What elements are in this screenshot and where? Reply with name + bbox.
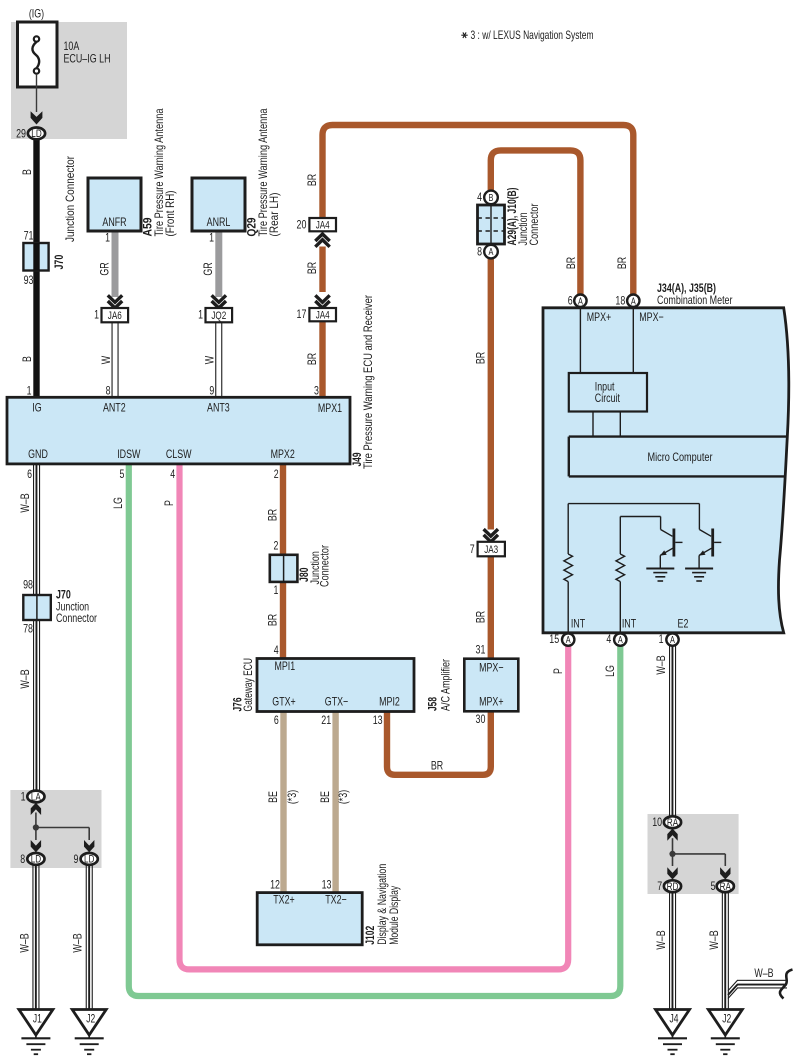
antenna ANFR A59: [88, 178, 141, 231]
svg-text:TX2−: TX2−: [325, 893, 347, 907]
svg-text:J2: J2: [86, 1014, 95, 1026]
wire BR JA4-17 to J49 MPX1: [319, 321, 325, 397]
svg-text:JA6: JA6: [108, 310, 122, 322]
wire BR JA3 to J58 MPX-: [488, 556, 494, 659]
svg-text:ANFR: ANFR: [102, 215, 126, 229]
svg-text:4: 4: [170, 467, 175, 481]
arrow down to LD9: [84, 840, 94, 852]
micro computer box: [569, 437, 787, 477]
wire BR from JA4-20 up over to meter pin18: [323, 125, 634, 295]
svg-text:78: 78: [23, 622, 33, 636]
svg-text:MPX−: MPX−: [639, 310, 663, 324]
svg-text:RD: RD: [667, 881, 679, 893]
internal wire lower rail: [620, 516, 660, 518]
svg-text:LG: LG: [603, 665, 617, 677]
svg-text:B: B: [489, 193, 494, 204]
chevron arrows out of JA4-20: [315, 234, 329, 241]
svg-text:Circuit: Circuit: [595, 391, 621, 405]
svg-text:W: W: [99, 355, 113, 364]
svg-text:93: 93: [24, 273, 34, 287]
svg-text:3 : w/ LEXUS Navigation System: 3 : w/ LEXUS Navigation System: [471, 28, 594, 42]
label J80 Junction Connector: [297, 545, 331, 587]
wire pin6 to input circuit: [579, 308, 581, 373]
svg-text:9: 9: [209, 384, 214, 398]
wire BE J76 GTX- to J102 TX2-: [332, 712, 338, 894]
chevron arrows into JA4-17: [315, 295, 329, 302]
svg-text:A: A: [618, 635, 623, 646]
ground of Q1: [646, 569, 674, 582]
svg-text:W–B: W–B: [707, 930, 721, 949]
svg-text:B: B: [20, 356, 34, 362]
svg-text:MPX−: MPX−: [479, 661, 503, 675]
chevron arrows into JA3: [484, 529, 498, 536]
svg-text:BR: BR: [265, 614, 279, 627]
wire W-B splice RD7 to ground J4: [669, 892, 670, 1009]
svg-text:1: 1: [274, 583, 279, 597]
junction connector A29(A) J10(B): [477, 190, 504, 258]
transistor Q1: [660, 517, 683, 569]
svg-text:BR: BR: [431, 759, 444, 773]
svg-text:6: 6: [27, 467, 32, 481]
pin 1 A terminal (E2): [659, 632, 679, 646]
svg-text:LD: LD: [31, 128, 41, 140]
connector 1 JQ2: [198, 308, 232, 323]
label Q29 / Tire Pressure Warning Antenna (Rear LH): [245, 108, 281, 236]
svg-text:1: 1: [27, 384, 32, 398]
junction connector J70 lower: [23, 578, 51, 636]
wire W-B splice LD8 to ground J1: [32, 865, 33, 1010]
wire W-B splice LD9 to ground J2: [86, 865, 87, 1010]
svg-text:INT: INT: [571, 617, 586, 631]
wire BR junction A29 A-pin down to JA3: [488, 258, 494, 530]
svg-text:2: 2: [274, 539, 279, 553]
transistor Q2: [699, 504, 722, 569]
svg-text:Connector: Connector: [527, 204, 541, 246]
ground splice panel lower-left: [10, 790, 101, 868]
svg-text:10: 10: [652, 815, 662, 829]
svg-text:15: 15: [549, 632, 559, 646]
svg-text:1: 1: [659, 632, 664, 646]
svg-text:ECU–IG LH: ECU–IG LH: [64, 52, 111, 66]
connector terminal 10 RA: [664, 816, 681, 828]
arrow down to LD8: [31, 840, 41, 852]
svg-text:98: 98: [23, 578, 33, 592]
gateway ECU J76: [257, 659, 414, 712]
svg-text:BE: BE: [318, 791, 332, 803]
ground J4: [656, 1010, 690, 1036]
wire continuation squiggle: [780, 970, 793, 999]
svg-text:JA4: JA4: [316, 220, 330, 232]
ground J2 right: [708, 1010, 742, 1036]
arrow down to RD7: [667, 867, 677, 879]
pin 6 A terminal: [568, 293, 587, 307]
svg-text:W–B: W–B: [654, 930, 668, 949]
pin 4 A terminal: [606, 632, 626, 646]
A/C amplifier J58: [464, 659, 518, 712]
svg-text:17: 17: [297, 307, 307, 321]
svg-text:1: 1: [198, 308, 203, 322]
wire BR between JA4 chevrons: [319, 247, 325, 293]
svg-text:IG: IG: [32, 401, 41, 415]
connector 17 JA4: [297, 307, 337, 322]
svg-text:(IG): (IG): [29, 7, 44, 21]
svg-text:BR: BR: [615, 257, 629, 270]
svg-text:JA4: JA4: [316, 310, 330, 322]
connector terminal 9 LD: [81, 853, 98, 865]
svg-text:7: 7: [657, 879, 662, 893]
label A29(A), J10(B) Junction Connector: [505, 188, 541, 246]
svg-text:Junction Connector: Junction Connector: [63, 156, 77, 242]
svg-text:CLSW: CLSW: [166, 447, 192, 461]
note: w/ LEXUS Navigation System: [461, 28, 593, 42]
label J58 A/C Amplifier: [426, 659, 453, 711]
svg-text:BE: BE: [266, 791, 280, 803]
svg-text:W–B: W–B: [754, 966, 773, 980]
svg-text:BR: BR: [305, 174, 319, 187]
svg-text:A/C Amplifier: A/C Amplifier: [439, 659, 453, 711]
arrow down to RA5: [720, 867, 730, 879]
svg-text:Connector: Connector: [318, 545, 332, 587]
svg-text:JQ2: JQ2: [211, 310, 226, 322]
label 10A ECU-IG LH: [64, 39, 111, 66]
ground of Q2: [685, 569, 713, 582]
wire BR J58 MPX+ to J76 MPI2: [387, 711, 491, 775]
connector terminal 7 RD: [664, 880, 681, 892]
svg-text:W–B: W–B: [18, 669, 32, 688]
svg-text:ANRL: ANRL: [207, 215, 231, 229]
wires input circuit to micro computer: [592, 412, 594, 437]
label J102 Display & Navigation Module Display: [363, 864, 401, 945]
ground splice panel lower-right: [648, 814, 739, 894]
svg-text:E2: E2: [678, 617, 689, 631]
svg-text:Connector: Connector: [56, 611, 97, 625]
junction connector J70 upper: [23, 229, 48, 288]
wire GR antenna ANRL to JQ2: [215, 231, 222, 297]
splice wire and junction dot right: [669, 838, 725, 866]
svg-text:A: A: [566, 635, 571, 646]
wire W-B branch to other page: [728, 980, 787, 999]
svg-text:MPX2: MPX2: [271, 447, 295, 461]
svg-text:A: A: [489, 247, 494, 258]
combination meter J34(A) J35(B) body: [543, 308, 789, 633]
arrow up into LA: [31, 803, 41, 815]
svg-text:1: 1: [105, 231, 110, 245]
svg-text:(Rear LH): (Rear LH): [267, 193, 281, 237]
connector 1 JA6: [94, 308, 128, 323]
connector 7 JA3: [470, 542, 505, 557]
wire P (pink) CLSW to meter INT15: [180, 463, 569, 969]
svg-text:1: 1: [94, 308, 99, 322]
svg-text:ANT2: ANT2: [103, 401, 126, 415]
svg-text:B: B: [20, 169, 34, 175]
wire pin18 to input circuit: [632, 308, 634, 373]
svg-text:TX2+: TX2+: [273, 893, 295, 907]
ECU J49 Tire Pressure Warning ECU and Receiver: [7, 397, 350, 464]
wire W JQ2 to J49 ANT3: [215, 322, 216, 397]
junction connector J80: [270, 555, 298, 582]
svg-text:1: 1: [21, 789, 26, 803]
pin 15 A terminal: [549, 632, 574, 646]
svg-text:RA: RA: [720, 881, 732, 893]
connector terminal 5 RA: [717, 880, 734, 892]
svg-text:BR: BR: [564, 257, 578, 270]
svg-text:7: 7: [470, 542, 475, 556]
svg-text:JA3: JA3: [484, 544, 498, 556]
chevron arrows into JA6: [108, 295, 122, 302]
svg-text:13: 13: [322, 878, 332, 892]
label A59 / Tire Pressure Warning Antenna (Front RH): [141, 108, 177, 236]
svg-text:W–B: W–B: [654, 655, 668, 674]
svg-text:P: P: [162, 500, 176, 506]
wire W-B from meter E2 down to splice RA10: [669, 646, 670, 817]
svg-text:BR: BR: [305, 262, 319, 275]
svg-text:LD: LD: [31, 854, 41, 866]
arrow up into RA: [667, 829, 677, 841]
svg-text:6: 6: [568, 293, 573, 307]
svg-text:W: W: [203, 355, 217, 364]
svg-text:GTX+: GTX+: [272, 695, 295, 709]
svg-text:BR: BR: [305, 353, 319, 366]
svg-text:3: 3: [314, 384, 319, 398]
svg-text:ANT3: ANT3: [207, 401, 230, 415]
svg-text:4: 4: [477, 190, 482, 204]
svg-text:9: 9: [74, 852, 79, 866]
svg-text:Gateway ECU: Gateway ECU: [241, 658, 255, 712]
svg-text:(*3): (*3): [336, 790, 350, 804]
svg-text:(*3): (*3): [285, 790, 299, 804]
pin 18 A terminal: [615, 293, 639, 307]
svg-text:LD: LD: [84, 854, 94, 866]
svg-text:LA: LA: [31, 791, 41, 803]
svg-text:W–B: W–B: [71, 933, 85, 952]
wire W-B from J49 GND down to splice LA: [33, 463, 34, 791]
svg-text:Module Display: Module Display: [387, 886, 401, 945]
svg-text:W–B: W–B: [17, 933, 31, 952]
label J70 Junction Connector lower: [56, 588, 97, 626]
ground J2 left: [72, 1010, 106, 1036]
wire BE J76 GTX+ to J102 TX2+: [280, 712, 286, 894]
svg-text:(Front RH): (Front RH): [163, 191, 177, 237]
svg-text:MPI2: MPI2: [379, 695, 400, 709]
wire BR J49 MPX2 through J80 to J76 MPI1: [280, 463, 286, 660]
splice wire and junction dot left: [33, 813, 89, 841]
chevron arrows into JQ2: [212, 295, 226, 302]
svg-text:INT: INT: [622, 617, 637, 631]
svg-text:4: 4: [606, 632, 611, 646]
svg-text:Micro Computer: Micro Computer: [648, 450, 713, 464]
svg-text:MPX+: MPX+: [587, 310, 611, 324]
svg-text:6: 6: [274, 713, 279, 727]
wire W JA6 to J49 ANT2: [112, 322, 113, 397]
svg-text:A: A: [578, 296, 583, 307]
svg-text:2: 2: [274, 467, 279, 481]
svg-text:8: 8: [477, 244, 482, 258]
svg-text:13: 13: [373, 713, 383, 727]
input circuit box: [569, 373, 647, 412]
fuse block background panel: [11, 22, 127, 139]
svg-text:12: 12: [270, 878, 280, 892]
svg-text:4: 4: [274, 643, 279, 657]
svg-text:Tire Pressure Warning ECU and: Tire Pressure Warning ECU and Receiver: [361, 295, 375, 469]
svg-text:MPX+: MPX+: [479, 695, 503, 709]
svg-text:18: 18: [615, 293, 625, 307]
svg-text:A: A: [631, 296, 636, 307]
wire W-B splice RA5 to ground J2 right: [722, 892, 723, 1009]
svg-text:MPX1: MPX1: [318, 401, 342, 415]
wire BR junction A29 B-pin up over to meter pin6: [491, 150, 581, 294]
arrow into connector LD: [31, 111, 43, 124]
svg-text:RA: RA: [667, 817, 679, 829]
resistor R1 (INT 15): [564, 504, 573, 633]
display module J102: [257, 893, 362, 945]
svg-text:IDSW: IDSW: [117, 447, 141, 461]
resistor R2 (INT 4): [616, 517, 625, 634]
connector terminal 29 LD: [28, 127, 45, 139]
svg-text:5: 5: [711, 879, 716, 893]
svg-text:30: 30: [476, 712, 486, 726]
svg-text:BR: BR: [265, 509, 279, 522]
svg-text:GR: GR: [201, 262, 215, 276]
svg-text:GTX−: GTX−: [325, 695, 348, 709]
svg-text:Combination Meter: Combination Meter: [657, 293, 733, 307]
label J76 Gateway ECU: [231, 658, 256, 712]
svg-text:LG: LG: [111, 497, 125, 509]
svg-text:BR: BR: [474, 611, 488, 624]
svg-text:1: 1: [209, 231, 214, 245]
svg-text:J58: J58: [426, 697, 440, 711]
svg-text:8: 8: [20, 852, 25, 866]
ground J1: [19, 1010, 53, 1036]
svg-text:GR: GR: [97, 262, 111, 276]
connector 20 JA4: [297, 217, 337, 231]
antenna ANRL Q29: [192, 178, 245, 231]
svg-text:J4: J4: [670, 1014, 679, 1026]
svg-text:71: 71: [24, 229, 34, 243]
svg-text:J1: J1: [33, 1014, 42, 1026]
svg-text:P: P: [551, 668, 565, 674]
connector terminal 1 LA: [27, 791, 44, 803]
svg-text:W–B: W–B: [18, 493, 32, 512]
svg-text:29: 29: [16, 126, 26, 140]
svg-text:BR: BR: [474, 352, 488, 365]
wire GR antenna ANFR to JA6: [112, 231, 119, 297]
svg-text:8: 8: [106, 384, 111, 398]
svg-text:J70: J70: [52, 254, 66, 269]
fuse ECU-IG LH: [18, 22, 58, 87]
connector terminal 8 LD: [27, 853, 44, 865]
internal wire upper rail: [568, 503, 699, 505]
svg-text:MPI1: MPI1: [274, 659, 295, 673]
svg-text:A: A: [670, 635, 675, 646]
wire B (black) fuse to J49 IG: [33, 138, 39, 398]
svg-text:5: 5: [120, 467, 125, 481]
svg-text:31: 31: [476, 643, 486, 657]
wire LG (green) IDSW to meter INT4: [129, 463, 621, 996]
svg-text:J2: J2: [722, 1014, 731, 1026]
svg-text:21: 21: [321, 713, 331, 727]
svg-text:20: 20: [297, 217, 307, 231]
wire fuse to connector LD: [36, 74, 38, 112]
svg-text:GND: GND: [28, 447, 48, 461]
